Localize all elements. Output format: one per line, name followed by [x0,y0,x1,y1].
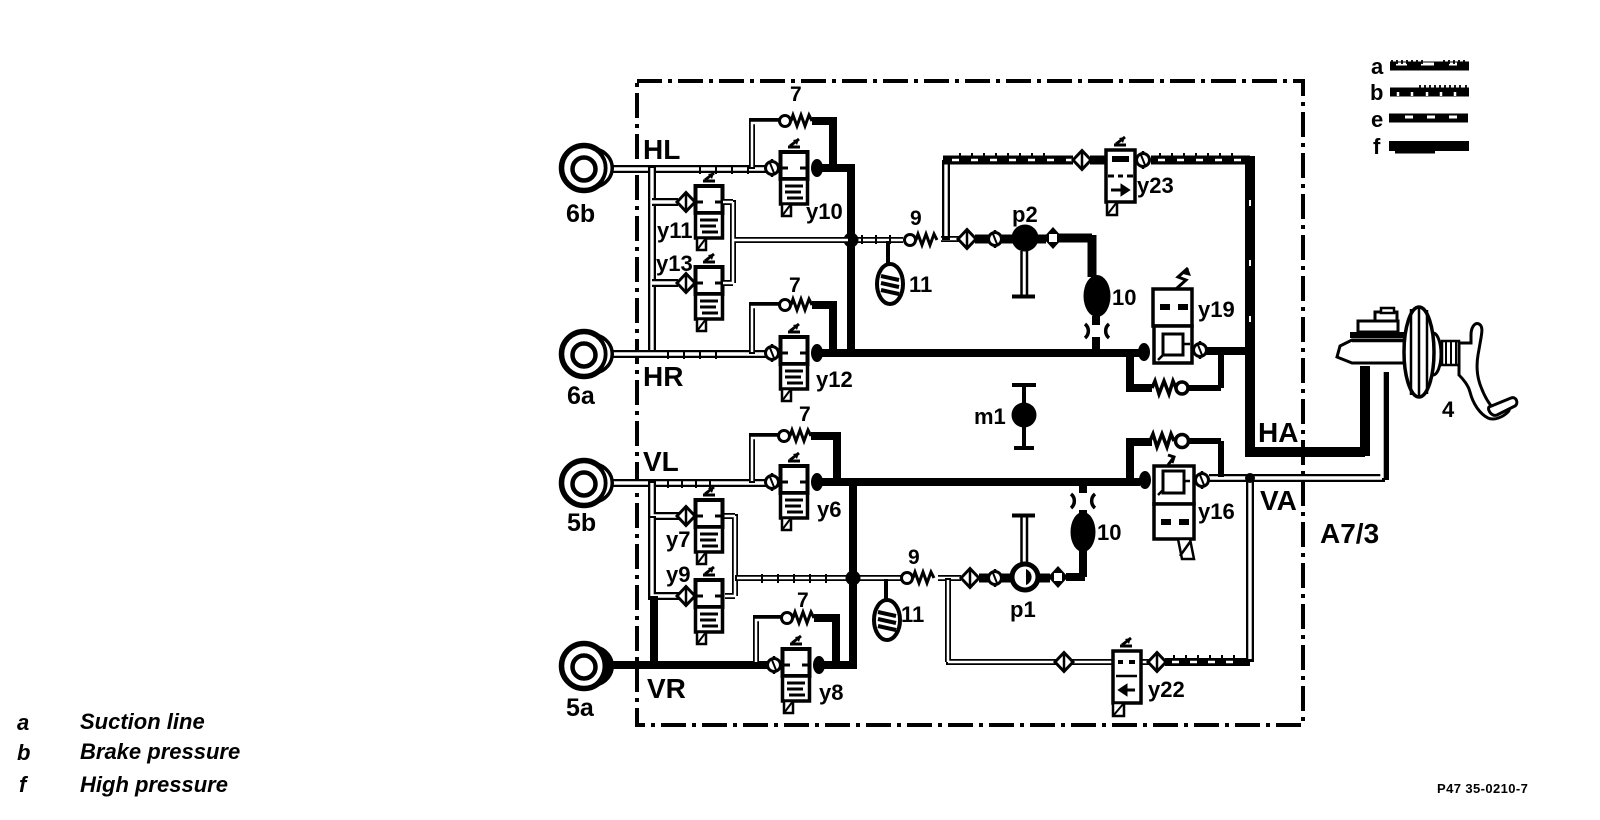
svg-text:b: b [17,740,30,765]
wire y22 riser up to VA line [1246,478,1254,662]
svg-text:b: b [1370,80,1383,105]
svg-text:High pressure: High pressure [80,772,228,797]
svg-text:e: e [1371,107,1383,132]
svg-text:11: 11 [909,272,932,297]
valve y13 [677,254,723,331]
svg-text:6b: 6b [566,200,595,228]
svg-text:10: 10 [1112,285,1136,310]
legend f line (high pressure) [1389,141,1469,151]
orifice brackets under damper 10 upper [1085,324,1109,338]
wire damper 10 down to HR line [1092,316,1100,350]
svg-text:p2: p2 [1012,202,1038,227]
valve y8 [768,636,826,713]
svg-text:7: 7 [789,274,801,297]
motor m1 [1012,384,1037,449]
wire y22 return riser from p1 row [946,578,1057,662]
wire y16 bypass loop above [1130,442,1152,479]
valve y19 [1138,268,1207,363]
valve y11/y13 right connector [723,200,852,283]
junction blobs [844,233,859,248]
svg-text:HL: HL [643,134,680,165]
svg-text:y8: y8 [819,680,843,705]
valve y9 [677,567,723,644]
wire accumulator 11 stem (upper) [886,241,890,264]
svg-text:y9: y9 [666,562,690,587]
port circle before p2 [989,230,1002,248]
valve y12 [766,324,824,401]
svg-text:Suction line: Suction line [80,709,205,734]
port black diamond after p2 [1043,227,1063,249]
svg-text:HA: HA [1258,417,1298,448]
wire y23 suction line right (striped) [1151,156,1250,165]
wire pump p1 suction row [735,574,901,583]
pump p2 [1012,225,1039,297]
throttle 9 (lower) [902,572,935,584]
orifice brackets above damper 10 lower [1071,494,1095,508]
frame A7/3 dash-dot border [637,81,1303,725]
wire y6 bypass left [752,436,779,483]
wire y10 output to main junction (thick) [820,164,851,352]
wire HR from sensor 6a [607,350,766,358]
valve y7 [677,487,723,564]
throttle 7 on y10 bypass [780,115,813,127]
wire y8 bypass left [756,618,782,665]
svg-text:y19: y19 [1198,297,1235,322]
wire VL main line (thick high pressure) [822,478,1140,486]
svg-text:y12: y12 [816,367,853,392]
svg-text:7: 7 [790,83,802,106]
wire HA riser (down right side) [1245,156,1255,452]
wire VR from sensor 5a (thick) [608,661,768,669]
wire y12 bypass left [752,305,780,354]
throttle 7 on y12 bypass [780,299,813,311]
svg-text:5b: 5b [567,509,596,537]
master cylinder / booster 4 [1337,307,1517,419]
wire y19 bypass loop below [1130,353,1152,388]
svg-text:y7: y7 [666,527,690,552]
wire suction riser to y23 line [942,160,950,240]
port diamond before p1 [961,569,979,588]
port diamond before p2 [958,230,976,249]
accumulator 11 (lower) [874,600,900,640]
svg-text:y13: y13 [656,251,693,276]
svg-text:y23: y23 [1137,173,1174,198]
sensor 6b [562,146,613,191]
wire y22 port links [1072,659,1150,665]
sensor 6a [562,332,613,377]
svg-text:VA: VA [1260,485,1297,516]
svg-text:m1: m1 [974,404,1006,429]
svg-text:HR: HR [643,361,683,392]
sensor 5b [562,461,613,506]
wire VA line to master cylinder [1209,372,1385,480]
wire HL from sensor 6b [607,165,766,173]
wire y23 suction line serration [960,153,1044,157]
wire y8 bypass right (thick) [814,618,836,662]
svg-text:VR: VR [647,673,686,704]
wire VL branch down to y7/y9/VR [652,480,680,596]
legend b line (brake pressure) [1390,85,1469,96]
legend e line [1389,117,1468,118]
wire y23 suction line left (striped) [943,156,1073,165]
pump p1 [1012,516,1038,591]
port black diamond after p1 [1048,566,1068,588]
wire VL-VR riser (thick) [849,482,857,665]
wire y22 output striped to right riser [1165,658,1250,666]
svg-text:Brake pressure: Brake pressure [80,739,240,764]
valve y11 [677,173,723,250]
wire HA to master cylinder (thick) [1245,366,1365,456]
wire HR main line (thick high pressure) [822,349,1139,357]
wire accumulator 11 stem (lower) [884,579,888,601]
valve y23 [1073,137,1150,215]
svg-text:A7/3: A7/3 [1320,518,1379,549]
wire y10 bypass right (thick) [812,121,833,165]
svg-text:y22: y22 [1148,677,1185,702]
wire y6 bypass right (thick) [811,436,837,479]
svg-text:f: f [1373,134,1381,159]
wire junction row to pump p2 (brake pressure) [848,235,903,244]
svg-text:P47 35-0210-7: P47 35-0210-7 [1437,781,1528,796]
accumulator 11 (upper) [877,264,903,304]
svg-text:4: 4 [1442,397,1455,422]
damper 10 (upper) [1084,275,1111,317]
svg-text:y11: y11 [657,218,693,243]
wire p2 output to damper 10 (thick) [1059,235,1092,277]
wire y12 bypass right (thick) [812,305,833,350]
svg-text:10: 10 [1097,520,1121,545]
port circle before p1 [989,569,1002,587]
svg-text:a: a [17,710,29,735]
valve y16 [1139,455,1209,559]
svg-text:7: 7 [799,403,811,426]
svg-text:y6: y6 [817,497,841,522]
svg-text:y16: y16 [1198,499,1235,524]
sensor 5a [562,644,613,689]
throttle 7 on y8 bypass [782,612,815,624]
wire y8 output (thick) [824,661,857,669]
svg-text:11: 11 [901,602,924,627]
wire y10 bypass left [752,121,780,169]
svg-text:y10: y10 [806,199,843,224]
legend a line (suction) [1390,60,1469,66]
svg-text:6a: 6a [567,382,596,410]
throttle 7 on y6 bypass [779,430,812,442]
wire damper 10 lower chain to VL line [1066,482,1085,577]
svg-text:5a: 5a [566,694,595,722]
wire HL branch down to y11/y13/HR [652,166,678,354]
valve y6 [766,453,824,530]
svg-text:VL: VL [643,446,679,477]
wire y7/y9 right connector [723,514,735,596]
svg-text:p1: p1 [1010,597,1036,622]
wire y9 row down to VR (thick) [650,596,658,665]
damper 10 (lower) [1071,512,1096,552]
svg-text:a: a [1371,54,1384,79]
svg-text:7: 7 [797,589,809,612]
svg-text:9: 9 [908,546,920,569]
valve y10 [766,139,824,216]
throttle 9 (upper) [905,234,938,246]
svg-text:9: 9 [910,207,922,230]
wire y23 port links [1090,156,1107,165]
valve y22 [1055,638,1166,716]
wire VL from sensor 5b [608,479,766,488]
wire y19 output to HA riser (thick) [1206,347,1252,355]
